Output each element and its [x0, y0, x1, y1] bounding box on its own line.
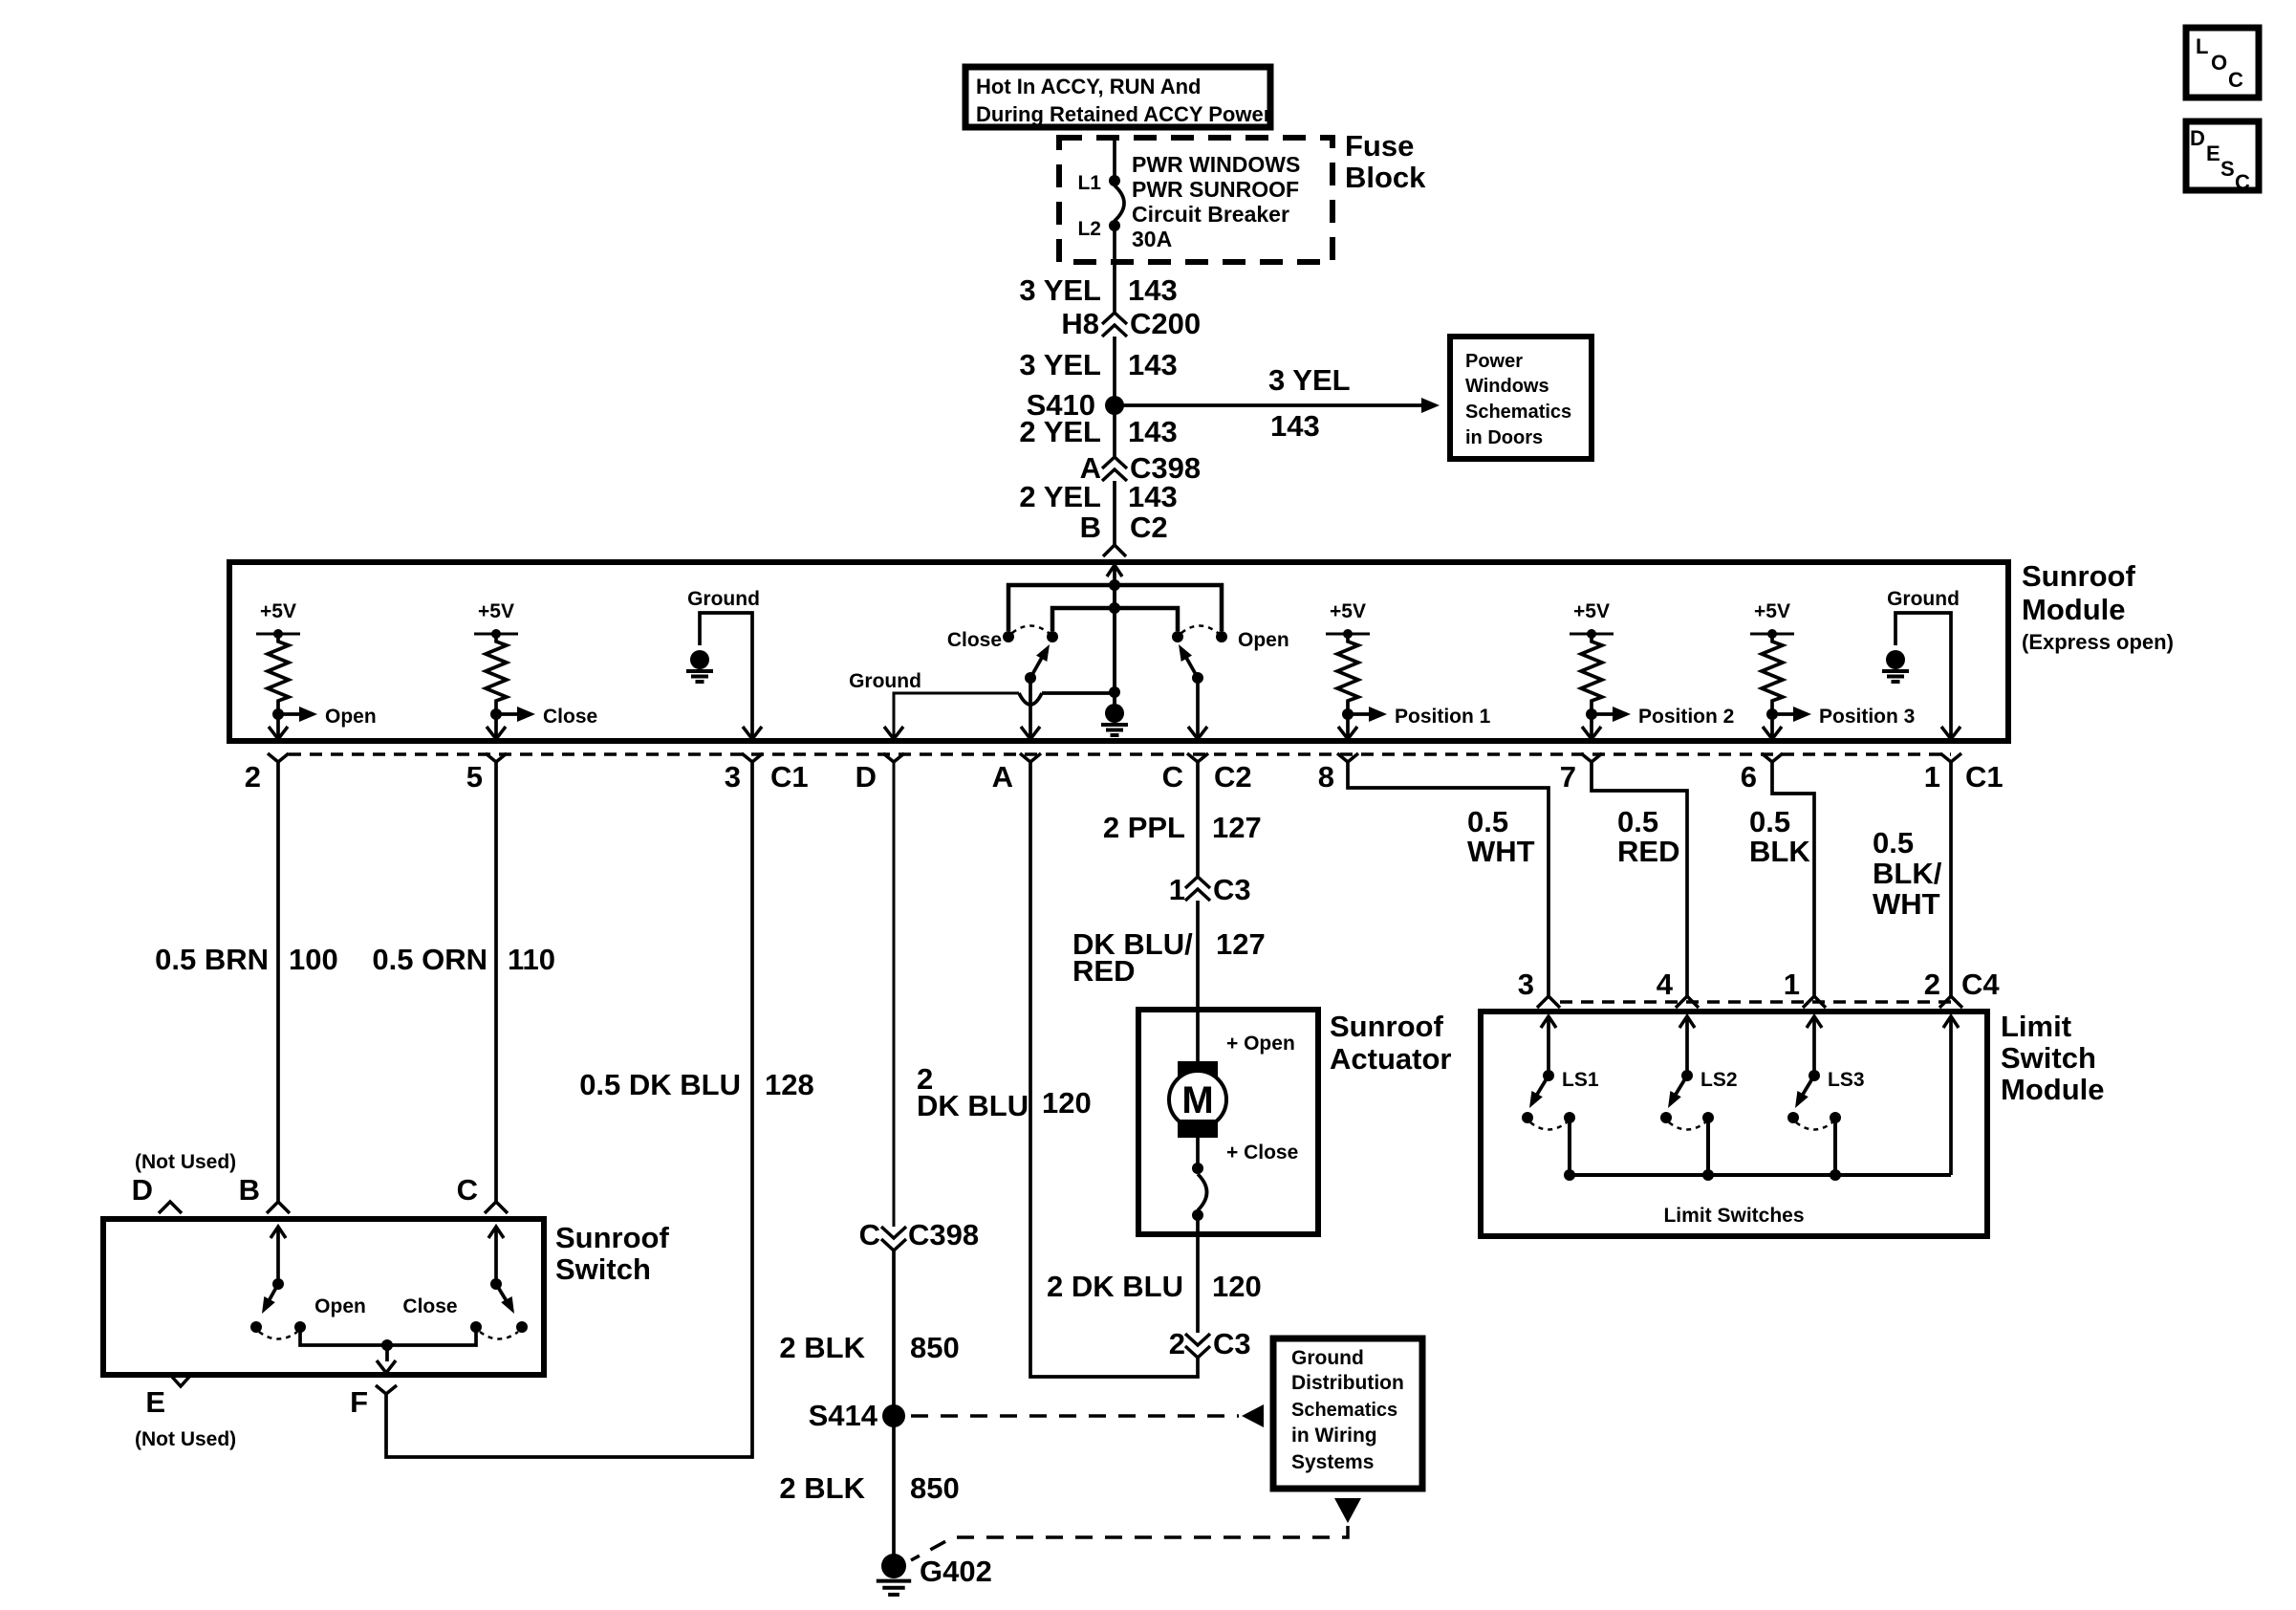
- dashed reference link from S414: [911, 1404, 1264, 1427]
- svg-text:3 YEL: 3 YEL: [1019, 348, 1101, 381]
- power source label box "Hot In ACCY, RUN And During Retained ACCY Power": [965, 67, 1272, 127]
- pin 8 (C1): [1318, 753, 1358, 794]
- wire 0.5 BLK: pin 6 to limit switch pin 1: [1772, 762, 1814, 996]
- svg-text:D: D: [132, 1173, 153, 1207]
- svg-text:Position 3: Position 3: [1819, 706, 1915, 728]
- pin F mark: [350, 1385, 397, 1419]
- svg-text:S: S: [2220, 157, 2235, 181]
- svg-text:in Doors: in Doors: [1465, 427, 1543, 448]
- svg-text:Open: Open: [325, 706, 377, 728]
- svg-text:C3: C3: [1213, 1327, 1251, 1360]
- wire 0.5 BLK/WHT: pin 1 to limit switch pin 2: [1949, 762, 1953, 996]
- svg-text:127: 127: [1212, 811, 1262, 844]
- svg-text:E: E: [2206, 141, 2220, 165]
- wire 2 DK BLU 120: pin A to actuator close side: [1030, 762, 1198, 1377]
- svg-text:850: 850: [910, 1471, 960, 1505]
- svg-text:L2: L2: [1077, 218, 1101, 240]
- svg-text:2 DK BLU: 2 DK BLU: [1047, 1270, 1183, 1303]
- svg-text:Close: Close: [402, 1295, 457, 1317]
- wire: C200 to splice S410: [1113, 337, 1116, 405]
- pin E (not used): [135, 1376, 236, 1450]
- pin 4 (C4): [1657, 968, 1699, 1008]
- svg-text:Module: Module: [2022, 593, 2126, 626]
- wire label 0.5 BLK/WHT: [1873, 826, 1942, 921]
- svg-text:2 BLK: 2 BLK: [779, 1471, 865, 1505]
- label Limit Switches: [1663, 1205, 1804, 1227]
- svg-text:143: 143: [1128, 273, 1178, 307]
- svg-text:BLK/: BLK/: [1873, 857, 1942, 890]
- splice S414: [809, 1399, 905, 1432]
- wire label 2 BLK 850: [779, 1471, 959, 1505]
- switch common bus to pin F: [300, 1327, 476, 1373]
- branch wire 3 YEL 143 to power windows schematics: [1115, 363, 1440, 443]
- svg-text:Limit: Limit: [2001, 1010, 2071, 1043]
- svg-text:C2: C2: [1130, 511, 1168, 544]
- reference box: Power Windows Schematics in Doors: [1450, 337, 1592, 459]
- svg-text:Module: Module: [2001, 1073, 2105, 1106]
- inline connector C398 pin C: [859, 1218, 980, 1251]
- svg-text:850: 850: [910, 1331, 960, 1364]
- svg-text:C3: C3: [1213, 873, 1251, 906]
- svg-text:S414: S414: [809, 1399, 878, 1432]
- svg-text:+5V: +5V: [1573, 600, 1610, 622]
- pin 2 (C4): [1924, 968, 2001, 1008]
- sunroof switch box: [103, 1219, 544, 1375]
- svg-text:7: 7: [1560, 760, 1576, 794]
- svg-text:Systems: Systems: [1291, 1451, 1374, 1473]
- svg-text:0.5: 0.5: [1617, 805, 1658, 838]
- svg-text:Windows: Windows: [1465, 376, 1549, 397]
- pin 7 (C1): [1560, 753, 1602, 794]
- svg-text:0.5 DK BLU: 0.5 DK BLU: [579, 1068, 741, 1101]
- signal arrow "Open" from R1: [278, 706, 377, 728]
- svg-text:RED: RED: [1617, 835, 1679, 868]
- svg-text:Sunroof: Sunroof: [1330, 1010, 1443, 1043]
- thermal contact in actuator: [1192, 1138, 1207, 1234]
- svg-text:Schematics: Schematics: [1465, 402, 1571, 423]
- svg-text:B: B: [239, 1173, 260, 1207]
- svg-text:LS3: LS3: [1828, 1069, 1865, 1091]
- svg-text:Sunroof: Sunroof: [555, 1221, 669, 1254]
- signal arrow "Position 1" from R3: [1348, 706, 1491, 728]
- splice S410: [1027, 388, 1124, 422]
- svg-text:0.5: 0.5: [1749, 805, 1790, 838]
- signal arrow "Position 2" from R4: [1592, 706, 1734, 728]
- reference box: Ground Distribution Schematics in Wiring Systems: [1273, 1338, 1422, 1489]
- wire pin 3 into module: [1541, 1016, 1556, 1076]
- limit switch LS3: [1787, 1069, 1865, 1175]
- svg-text:0.5 ORN: 0.5 ORN: [372, 943, 487, 976]
- motor M1 (sunroof motor): [1169, 1061, 1226, 1138]
- wire R4 to module pin: [1582, 714, 1601, 739]
- wire 0.5 ORN 110: pin 5 to switch pin C: [494, 762, 498, 1202]
- limit switch LS2: [1660, 1069, 1738, 1175]
- svg-text:Distribution: Distribution: [1291, 1372, 1404, 1394]
- dashed reference link to G402: [911, 1498, 1361, 1560]
- pin 6 (C1): [1741, 753, 1783, 794]
- wire label 0.5 ORN 110: [372, 943, 555, 976]
- svg-text:in Wiring: in Wiring: [1291, 1425, 1377, 1447]
- inline connector C3 pin 1: [1169, 873, 1251, 906]
- svg-text:143: 143: [1128, 415, 1178, 448]
- connector row C4 (dashed): [1560, 1000, 1951, 1004]
- svg-text:Sunroof: Sunroof: [2022, 559, 2135, 593]
- svg-text:2: 2: [1924, 968, 1940, 1001]
- wire pin 1 into module: [1807, 1016, 1822, 1076]
- svg-text:L: L: [2196, 34, 2208, 58]
- node: feed junction (inner rail): [1052, 602, 1178, 631]
- ground G402: [877, 1554, 992, 1595]
- svg-text:Schematics: Schematics: [1291, 1400, 1397, 1421]
- svg-text:Position 1: Position 1: [1395, 706, 1491, 728]
- wire 0.5 RED: pin 7 to limit switch pin 4: [1592, 762, 1687, 996]
- svg-text:C: C: [457, 1173, 478, 1207]
- svg-text:+5V: +5V: [1754, 600, 1790, 622]
- switch arm (open relay): [1179, 644, 1203, 684]
- svg-text:+5V: +5V: [1330, 600, 1366, 622]
- svg-text:(Express open): (Express open): [2022, 630, 2174, 654]
- wire label 2 PPL 127: [1103, 811, 1262, 844]
- svg-text:143: 143: [1128, 480, 1178, 513]
- sunroof module box: [229, 562, 2008, 741]
- wire label 0.5 BLK: [1749, 805, 1810, 868]
- svg-text:0.5 BRN: 0.5 BRN: [155, 943, 269, 976]
- svg-text:C200: C200: [1130, 307, 1201, 340]
- wire label 0.5 DK BLU 128: [579, 1068, 814, 1101]
- pin 5 (C1): [466, 753, 507, 794]
- svg-text:A: A: [992, 760, 1013, 794]
- svg-text:Open: Open: [1238, 629, 1289, 651]
- LOC reference box: [2186, 28, 2259, 98]
- ground (module internal, center): [1101, 704, 1128, 735]
- svg-text:F: F: [350, 1385, 368, 1419]
- svg-text:L1: L1: [1077, 172, 1101, 194]
- switch arm (close relay): [1025, 644, 1050, 684]
- label + Close: [1226, 1142, 1298, 1164]
- limit switch module label: [2001, 1010, 2105, 1106]
- svg-text:127: 127: [1216, 927, 1266, 961]
- pin C mark: [457, 1173, 508, 1213]
- svg-text:+5V: +5V: [260, 600, 296, 622]
- svg-text:5: 5: [466, 760, 483, 794]
- svg-text:110: 110: [508, 943, 555, 976]
- wire R5 to module pin: [1763, 714, 1782, 739]
- svg-text:Power: Power: [1465, 351, 1523, 372]
- sunroof switch label: [555, 1221, 669, 1286]
- svg-text:DK BLU: DK BLU: [917, 1089, 1029, 1122]
- resistor R2 (+5V pull-up): [474, 600, 518, 720]
- svg-text:2 YEL: 2 YEL: [1019, 480, 1101, 513]
- signal arrow "Close" from R2: [496, 706, 597, 728]
- svg-text:Switch: Switch: [2001, 1041, 2096, 1075]
- svg-text:(Not Used): (Not Used): [135, 1428, 236, 1450]
- svg-text:C1: C1: [770, 760, 809, 794]
- wire label 0.5 BRN 100: [155, 943, 338, 976]
- label + Open: [1226, 1033, 1295, 1055]
- svg-text:D: D: [2190, 126, 2205, 150]
- wire label 0.5 RED: [1617, 805, 1679, 868]
- svg-text:2 PPL: 2 PPL: [1103, 811, 1185, 844]
- svg-text:C: C: [859, 1218, 880, 1251]
- svg-text:Switch: Switch: [555, 1252, 651, 1286]
- pin 1 (C4): [1784, 968, 1826, 1008]
- wire label 3 YEL 143 (circuit 143): [1019, 273, 1177, 307]
- module feed entry arrow from C2 pin B: [1107, 565, 1122, 585]
- resistor R4 (+5V pull-up): [1570, 600, 1614, 720]
- svg-text:+ Open: + Open: [1226, 1033, 1295, 1055]
- ground (module internal, right): [1882, 588, 1960, 739]
- svg-text:2 BLK: 2 BLK: [779, 1331, 865, 1364]
- switch arm close side: [470, 1227, 528, 1339]
- wire 2 BLK 850: pin D to G402: [893, 762, 896, 1556]
- svg-text:+ Close: + Close: [1226, 1142, 1298, 1164]
- inline connector C398 pin A: [1080, 451, 1202, 485]
- wire: L2 down to connector C200: [1113, 226, 1116, 312]
- inline connector C3 pin 2: [1169, 1327, 1251, 1360]
- svg-text:Fuse: Fuse: [1345, 129, 1414, 163]
- svg-text:Block: Block: [1345, 161, 1426, 194]
- svg-text:C398: C398: [908, 1218, 979, 1251]
- wire 0.5 DK BLU 128: pin 3 to switch pin F: [386, 762, 752, 1457]
- wire 0.5 WHT: pin 8 to limit switch pin 3: [1348, 762, 1549, 996]
- svg-text:1: 1: [1924, 760, 1940, 794]
- inline connector C200 pin H8: [1061, 307, 1201, 340]
- svg-text:0.5: 0.5: [1467, 805, 1508, 838]
- pin 3 (C1): [725, 753, 809, 794]
- wire R1 to module pin: [269, 714, 288, 739]
- sunroof module label: [2022, 559, 2174, 654]
- wire: C398 to module connector C2 pin B: [1113, 481, 1116, 545]
- wire: close arm to pin A: [1021, 678, 1040, 739]
- terminal L1: [1077, 172, 1120, 194]
- svg-text:WHT: WHT: [1467, 835, 1535, 868]
- wire label 2 BLK 850: [779, 1331, 959, 1364]
- wire label DK BLU/RED 127: [1072, 927, 1266, 988]
- svg-text:PWR SUNROOF: PWR SUNROOF: [1132, 177, 1299, 202]
- svg-text:2 YEL: 2 YEL: [1019, 415, 1101, 448]
- resistor R5 (+5V pull-up): [1750, 600, 1794, 720]
- svg-text:Hot In ACCY, RUN And: Hot In ACCY, RUN And: [976, 75, 1201, 98]
- svg-text:120: 120: [1042, 1086, 1092, 1120]
- svg-text:PWR WINDOWS: PWR WINDOWS: [1132, 152, 1300, 177]
- wire: inner rail to internal ground: [1109, 585, 1120, 707]
- svg-text:6: 6: [1741, 760, 1757, 794]
- wire: actuator to connector C3 pin 2: [1196, 1234, 1200, 1333]
- contact: Open side: [1172, 626, 1289, 652]
- svg-text:Open: Open: [314, 1295, 366, 1317]
- svg-text:M: M: [1181, 1079, 1213, 1121]
- pin A (C2): [992, 753, 1041, 794]
- resistor R1 (+5V pull-up): [256, 600, 300, 720]
- svg-text:128: 128: [765, 1068, 814, 1101]
- circuit breaker PWR WINDOWS PWR SUNROOF 30A: [1115, 152, 1300, 251]
- contact: Close side: [947, 626, 1058, 652]
- svg-text:3 YEL: 3 YEL: [1019, 273, 1101, 307]
- svg-text:120: 120: [1212, 1270, 1262, 1303]
- svg-text:143: 143: [1270, 409, 1320, 443]
- ground (module internal, left): [686, 588, 762, 739]
- limit switch common bus: [1564, 1169, 1951, 1181]
- pin D (not used): [132, 1151, 237, 1213]
- label Close: [402, 1295, 457, 1317]
- wire label 2 YEL 143: [1019, 480, 1177, 513]
- svg-text:2: 2: [245, 760, 261, 794]
- svg-text:(Not Used): (Not Used): [135, 1151, 236, 1173]
- svg-text:0.5: 0.5: [1873, 826, 1914, 859]
- svg-text:G402: G402: [920, 1555, 992, 1588]
- svg-text:BLK: BLK: [1749, 835, 1810, 868]
- pin B mark: [239, 1173, 290, 1213]
- svg-text:30A: 30A: [1132, 227, 1172, 251]
- wire R3 to module pin: [1338, 714, 1357, 739]
- svg-text:C: C: [2235, 170, 2250, 194]
- svg-text:Ground: Ground: [849, 670, 921, 692]
- svg-text:Actuator: Actuator: [1330, 1042, 1451, 1076]
- node: feed junction (outer rail): [1008, 579, 1222, 631]
- pin D (C2): [856, 753, 904, 794]
- svg-text:During Retained ACCY Power: During Retained ACCY Power: [976, 102, 1272, 126]
- svg-text:D: D: [856, 760, 877, 794]
- svg-text:LS2: LS2: [1700, 1069, 1738, 1091]
- wire: open arm to pin C: [1188, 678, 1207, 739]
- wire label 2 DK BLU 120: [1047, 1270, 1262, 1303]
- svg-text:Circuit Breaker: Circuit Breaker: [1132, 202, 1289, 227]
- svg-text:3: 3: [725, 760, 741, 794]
- pin C (C2): [1162, 753, 1252, 794]
- terminal L2: [1077, 218, 1120, 240]
- connector row C1/C2 (dashed): [289, 752, 1951, 756]
- wire pin 2 into module to common bus: [1943, 1016, 1959, 1175]
- ground feed to pin D: [849, 670, 1115, 739]
- svg-text:Ground: Ground: [687, 588, 760, 610]
- svg-text:C1: C1: [1965, 760, 2004, 794]
- svg-text:Ground: Ground: [1887, 588, 1960, 610]
- svg-text:143: 143: [1128, 348, 1178, 381]
- svg-text:8: 8: [1318, 760, 1334, 794]
- wire: S410 to connector C398: [1113, 405, 1116, 456]
- wire DK BLU/RED 127: C3 to motor: [1196, 901, 1200, 1061]
- svg-text:Close: Close: [543, 706, 597, 728]
- svg-text:H8: H8: [1061, 307, 1099, 340]
- svg-text:Limit Switches: Limit Switches: [1663, 1205, 1804, 1227]
- svg-text:Position 2: Position 2: [1638, 706, 1734, 728]
- svg-text:3 YEL: 3 YEL: [1268, 363, 1351, 397]
- svg-text:4: 4: [1657, 968, 1674, 1001]
- svg-text:1: 1: [1169, 873, 1185, 906]
- fuse block (dashed box): [1059, 138, 1332, 262]
- svg-text:2: 2: [1169, 1327, 1185, 1360]
- fuse block label: [1345, 129, 1426, 194]
- svg-text:O: O: [2211, 51, 2227, 75]
- module connector C2 pin B: [1080, 511, 1168, 556]
- wire R2 to module pin: [487, 714, 506, 739]
- svg-text:C: C: [2228, 68, 2243, 92]
- svg-text:100: 100: [289, 943, 338, 976]
- limit switch LS1: [1522, 1069, 1599, 1175]
- wire label 2 YEL 143: [1019, 415, 1177, 448]
- wire label 3 YEL 143: [1019, 348, 1177, 381]
- svg-text:Close: Close: [947, 629, 1002, 651]
- switch arm open side: [250, 1227, 306, 1339]
- svg-text:C2: C2: [1214, 760, 1252, 794]
- pin 3 (C4): [1518, 968, 1560, 1008]
- svg-text:C4: C4: [1961, 968, 2000, 1001]
- svg-text:WHT: WHT: [1873, 887, 1940, 921]
- svg-text:C: C: [1162, 760, 1183, 794]
- DESC reference box: [2186, 121, 2259, 194]
- limit switch module box: [1481, 1012, 1987, 1236]
- svg-text:3: 3: [1518, 968, 1534, 1001]
- svg-text:B: B: [1080, 511, 1101, 544]
- wire 2 PPL 127: pin C to actuator: [1196, 762, 1200, 876]
- pin 1 (C1): [1924, 753, 2004, 794]
- wire label 2 DK BLU 120: [917, 1062, 1092, 1122]
- wire pin 4 into module: [1679, 1016, 1695, 1076]
- svg-text:RED: RED: [1072, 954, 1135, 988]
- svg-text:1: 1: [1784, 968, 1800, 1001]
- pin 2 (C1): [245, 753, 289, 794]
- svg-text:LS1: LS1: [1562, 1069, 1599, 1091]
- wire label 0.5 WHT: [1467, 805, 1535, 868]
- svg-text:+5V: +5V: [478, 600, 514, 622]
- label Open: [314, 1295, 366, 1317]
- resistor R3 (+5V pull-up): [1326, 600, 1370, 720]
- sunroof actuator label: [1330, 1010, 1451, 1076]
- wire 0.5 BRN 100: pin 2 to switch pin B: [276, 762, 280, 1202]
- svg-text:E: E: [145, 1385, 165, 1419]
- wire: fuse block to L1: [1113, 138, 1116, 181]
- signal arrow "Position 3" from R5: [1772, 706, 1915, 728]
- sunroof actuator box: [1138, 1010, 1318, 1234]
- svg-text:Ground: Ground: [1291, 1347, 1364, 1369]
